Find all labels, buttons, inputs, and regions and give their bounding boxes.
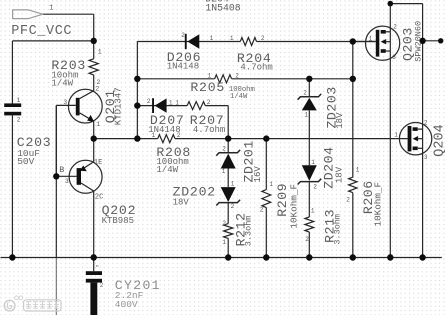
svg-text:10Kohm_F: 10Kohm_F xyxy=(288,184,299,229)
svg-text:2: 2 xyxy=(100,282,104,289)
svg-text:3.3ohm: 3.3ohm xyxy=(333,214,343,245)
svg-text:KTD1347: KTD1347 xyxy=(114,87,124,125)
svg-text:1: 1 xyxy=(304,112,308,119)
svg-text:3: 3 xyxy=(424,154,428,161)
svg-text:2: 2 xyxy=(17,117,21,124)
svg-text:2C: 2C xyxy=(95,194,103,202)
svg-text:1: 1 xyxy=(17,97,21,104)
svg-text:3: 3 xyxy=(65,178,69,185)
svg-text:2: 2 xyxy=(231,203,235,210)
svg-text:1: 1 xyxy=(311,207,315,214)
svg-text:2: 2 xyxy=(261,35,265,42)
svg-text:18V: 18V xyxy=(173,197,190,207)
svg-text:2: 2 xyxy=(222,220,226,227)
svg-text:1: 1 xyxy=(311,159,315,166)
svg-text:1: 1 xyxy=(230,35,234,42)
svg-text:1: 1 xyxy=(152,132,156,139)
svg-text:3: 3 xyxy=(63,99,67,106)
svg-text:2: 2 xyxy=(313,184,317,191)
svg-text:2: 2 xyxy=(235,72,239,79)
svg-text:1: 1 xyxy=(394,132,398,139)
svg-text:3.3ohm: 3.3ohm xyxy=(244,216,254,247)
svg-text:2: 2 xyxy=(147,98,151,105)
svg-text:1: 1 xyxy=(222,168,226,175)
svg-text:D204: D204 xyxy=(205,0,229,4)
svg-text:1: 1 xyxy=(169,99,173,106)
svg-text:KTB985: KTB985 xyxy=(102,216,134,226)
svg-text:2: 2 xyxy=(222,146,226,153)
svg-text:PFC_VCC: PFC_VCC xyxy=(11,24,72,39)
svg-text:1/4W: 1/4W xyxy=(156,165,178,175)
svg-text:1: 1 xyxy=(269,181,273,188)
svg-text:400V: 400V xyxy=(115,299,138,310)
svg-text:16V: 16V xyxy=(253,166,263,183)
svg-text:1: 1 xyxy=(96,121,100,128)
svg-text:1: 1 xyxy=(356,167,360,174)
svg-text:2: 2 xyxy=(303,90,307,97)
svg-text:2: 2 xyxy=(260,206,264,213)
svg-text:1E: 1E xyxy=(94,159,102,167)
svg-text:2: 2 xyxy=(346,196,350,203)
svg-text:″: ″ xyxy=(96,265,100,272)
svg-text:2: 2 xyxy=(181,32,185,39)
svg-text:18V: 18V xyxy=(334,166,344,183)
svg-text:1N4148: 1N4148 xyxy=(167,62,199,72)
svg-text:4.7ohm: 4.7ohm xyxy=(240,63,272,73)
svg-text:10Kohm_F: 10Kohm_F xyxy=(372,182,383,227)
svg-text:50V: 50V xyxy=(17,156,34,167)
svg-text:1: 1 xyxy=(210,35,214,42)
svg-text:1/4W: 1/4W xyxy=(51,78,73,88)
svg-text:2: 2 xyxy=(207,99,211,106)
svg-text:1/4W: 1/4W xyxy=(230,93,248,101)
svg-text:2: 2 xyxy=(305,236,309,243)
svg-text:2: 2 xyxy=(95,85,99,92)
svg-text:B: B xyxy=(59,165,64,175)
svg-text:1: 1 xyxy=(369,35,373,42)
svg-text:Q204: Q204 xyxy=(433,124,445,156)
svg-text:4.7ohm: 4.7ohm xyxy=(193,125,225,135)
svg-text:SPW20N60: SPW20N60 xyxy=(414,21,424,62)
svg-text:2: 2 xyxy=(424,120,428,127)
svg-text:1: 1 xyxy=(222,239,226,246)
svg-text:2: 2 xyxy=(393,24,397,31)
svg-text:18V: 18V xyxy=(335,112,345,129)
svg-text:1: 1 xyxy=(231,180,235,187)
svg-text:1: 1 xyxy=(208,72,212,79)
svg-text:1: 1 xyxy=(98,49,102,56)
svg-text:1: 1 xyxy=(175,99,179,106)
svg-text:1: 1 xyxy=(49,4,53,12)
svg-text:2: 2 xyxy=(177,132,181,139)
svg-text:3: 3 xyxy=(392,54,396,61)
svg-text:R205: R205 xyxy=(190,80,225,95)
